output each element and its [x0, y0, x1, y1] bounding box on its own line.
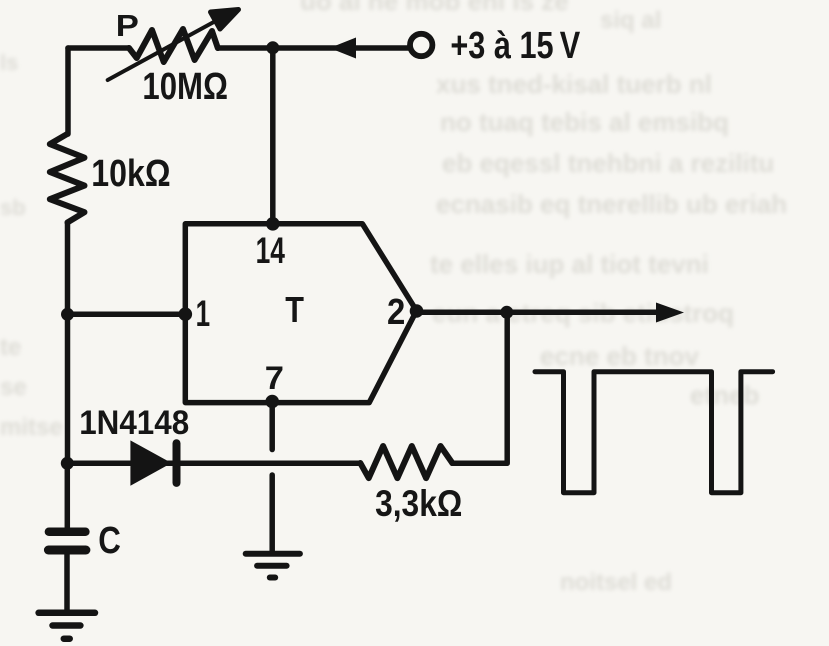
resistor 10kOhm (vertical zigzag): [50, 134, 85, 223]
wire pin 14 vertical (top rail to pin 14): [270, 48, 276, 224]
wire left vertical mid (10k to node A): [65, 222, 71, 314]
node: top junction (pin 14 rail): [266, 41, 279, 54]
svg-text:3,3kΩ: 3,3kΩ: [375, 483, 462, 524]
potentiometer arrow shaft: [108, 18, 222, 81]
supply arrowhead (pointing left): [330, 38, 356, 59]
svg-text:ecnasib eq tnerellib ub er: ecnasib eq tnerellib ub eriah: [436, 189, 787, 219]
svg-text:1: 1: [196, 293, 211, 334]
svg-text:P: P: [116, 8, 139, 43]
svg-text:uo al ne mob ehl is ze: uo al ne mob ehl is ze: [300, 0, 569, 16]
svg-text:sb: sb: [0, 195, 26, 220]
wire node B down to capacitor: [65, 463, 71, 528]
node: pin 1: [179, 307, 193, 321]
svg-text:te: te: [0, 334, 21, 361]
svg-text:C: C: [98, 520, 121, 562]
svg-text:xus tned-kisal tuerb nl: xus tned-kisal tuerb nl: [436, 69, 712, 99]
svg-text:siq al: siq al: [600, 7, 661, 34]
svg-text:1N4148: 1N4148: [79, 404, 189, 442]
svg-text:ls: ls: [0, 50, 18, 75]
svg-text:mitse: mitse: [0, 414, 63, 441]
wire left vertical upper (top rail down to 10k resistor): [65, 48, 71, 134]
svg-text:eb eqessl tnehbni a rezili: eb eqessl tnehbni a rezilitu: [442, 148, 774, 178]
resistor 3,3kOhm (horizontal zigzag): [360, 446, 452, 478]
node: pin 7: [265, 395, 279, 409]
svg-text:ecne eb tnov: ecne eb tnov: [540, 341, 699, 371]
ground (bottom left, under capacitor): [39, 613, 95, 639]
svg-text:noitsel ed: noitsel ed: [560, 569, 672, 596]
svg-text:T: T: [285, 289, 304, 330]
capacitor C plate 2: [48, 546, 86, 555]
wire output pin 2: [417, 310, 658, 316]
svg-text:no tuaq tebis al emsibq: no tuaq tebis al emsibq: [440, 107, 729, 137]
wire resistor to output vertical: [452, 461, 506, 467]
svg-text:+3 à 15 V: +3 à 15 V: [450, 25, 580, 67]
svg-text:7: 7: [265, 360, 284, 396]
supply terminal circle: [410, 34, 432, 56]
potentiometer P (zigzag body): [129, 29, 218, 62]
svg-text:etneb: etneb: [690, 380, 759, 410]
svg-text:2: 2: [387, 291, 405, 332]
diode 1N4148 (triangle): [130, 440, 171, 485]
svg-text:10kΩ: 10kΩ: [91, 153, 170, 195]
output square wave (waveform): [535, 372, 773, 493]
wire node B to diode and resistor row: [67, 461, 360, 467]
svg-text:se: se: [0, 374, 27, 401]
svg-text:te elles iup al tiot tevn: te elles iup al tiot tevni: [430, 249, 709, 279]
wire pot right end to supply terminal: [218, 45, 408, 51]
output arrowhead (pointing right): [656, 303, 684, 323]
svg-text:10MΩ: 10MΩ: [142, 66, 228, 108]
svg-text:14: 14: [256, 230, 286, 271]
op-amp / timer block T (pentagon body): [185, 224, 416, 403]
wire capacitor to ground: [64, 554, 70, 613]
node B (left, diode row): [61, 457, 74, 470]
wire top-left horizontal (supply rail to pot): [68, 45, 129, 51]
node A (left, pin 1 row): [61, 308, 74, 321]
wire pin 7 lower segment to ground: [269, 475, 275, 553]
node: output junction: [500, 306, 513, 319]
ground (under pin 7): [246, 554, 300, 578]
diode cathode bar: [173, 443, 181, 483]
node: pin 2: [410, 304, 424, 318]
capacitor C plate 1: [49, 528, 86, 537]
node: pin 14: [266, 217, 280, 231]
wire output vertical drop: [504, 312, 510, 463]
wire node A to pin 1: [68, 312, 185, 318]
wire left vertical lower (node A to node B): [65, 314, 71, 463]
wire pin 7 upper segment: [269, 403, 275, 450]
potentiometer arrowhead: [211, 10, 239, 30]
